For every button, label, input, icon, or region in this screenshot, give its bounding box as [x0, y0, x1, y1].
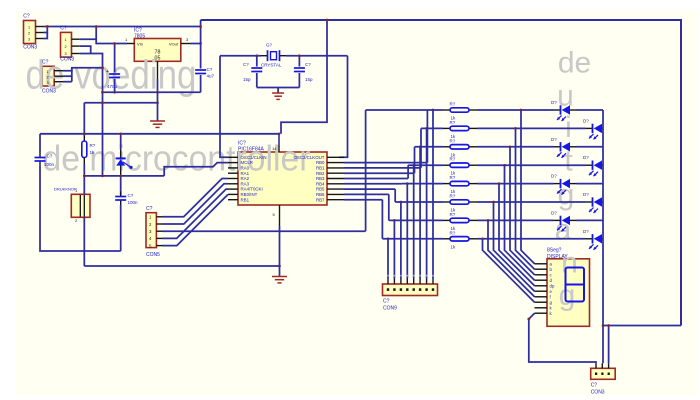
- display pin stubs 9,10: [535, 308, 548, 313]
- wire column to CON9 pin5: [406, 184, 408, 279]
- switch S1 pin ticks: [75, 188, 78, 223]
- wire crystal cap right drop: [298, 56, 300, 67]
- svg-text:C?: C?: [42, 59, 49, 65]
- svg-text:OSC1/CLKIN: OSC1/CLKIN: [241, 155, 267, 160]
- svg-text:C?: C?: [591, 383, 598, 389]
- junction VDD top bus: [326, 19, 329, 22]
- LED D6 leads: [586, 201, 604, 203]
- svg-text:4u7: 4u7: [207, 74, 215, 79]
- svg-text:C?: C?: [243, 62, 249, 67]
- svg-text:R?: R?: [450, 120, 456, 125]
- junction gnd rail B x157: [156, 101, 159, 104]
- wire column to CON9 pin7: [393, 220, 395, 278]
- wire J4 pin5 to MCU: [163, 194, 229, 245]
- wire pin RB5 riser: [394, 189, 396, 202]
- capacitor C4 stubs: [120, 192, 122, 206]
- junction 470u top: [113, 42, 116, 45]
- wire MCU pin RB4 out: [344, 183, 402, 185]
- svg-text:MCLR: MCLR: [241, 160, 253, 165]
- junction VDD node: [278, 132, 281, 135]
- wire J4 pin1 to MCU: [163, 179, 229, 217]
- connector J3 pin stubs: [54, 71, 63, 82]
- svg-text:8Seg?: 8Seg?: [547, 248, 562, 254]
- svg-text:1: 1: [47, 70, 49, 74]
- MCU VSS pin stub: [279, 205, 281, 226]
- wire column to CON9 pin4: [413, 165, 415, 278]
- ground symbol MCU: [272, 277, 287, 283]
- svg-text:05: 05: [155, 56, 161, 62]
- wire +5V distribution bus: [40, 133, 279, 135]
- junction display tap row1: [520, 109, 523, 112]
- wire resistor R8 to LED: [477, 238, 586, 240]
- junction gnd rail B x102: [101, 101, 104, 104]
- wire regulator output to +5V bus: [191, 43, 201, 45]
- resistor R8 leads: [443, 238, 477, 240]
- wire resistor R2 to LED: [477, 127, 586, 129]
- wire OSC2 to MCU: [339, 56, 348, 158]
- wire MCU VDD pin: [278, 134, 280, 145]
- display pin7 stub: [535, 296, 548, 298]
- svg-text:3: 3: [47, 81, 49, 85]
- wire MCU VSS to ground: [279, 226, 281, 277]
- svg-text:G?: G?: [266, 43, 273, 48]
- wire left loop bottom: [40, 166, 121, 251]
- wire pin RB6 riser: [388, 194, 390, 220]
- svg-text:n: n: [561, 247, 578, 280]
- wire display common out: [529, 313, 596, 363]
- svg-text:DISPLAY: DISPLAY: [547, 254, 568, 260]
- MCU right pin names: [294, 155, 326, 202]
- junction MCLR at gnd drop: [101, 175, 104, 178]
- wire display line 1: [521, 110, 535, 264]
- svg-text:2: 2: [47, 76, 49, 80]
- junction display tap row8: [481, 237, 484, 240]
- wire MCU pin RB5 out: [344, 188, 395, 190]
- junction display tap row6: [492, 201, 495, 204]
- resistor R2 body: [450, 126, 469, 130]
- wire column to CON9 pin2: [426, 128, 428, 278]
- connector J3 pin numbers: [47, 70, 49, 85]
- capacitor C4 100n plates: [115, 197, 126, 201]
- svg-text:R?: R?: [450, 157, 456, 162]
- junction row6 tap: [400, 201, 403, 204]
- display pin names: [550, 261, 555, 316]
- resistor R9 10k (vertical): [82, 141, 87, 158]
- junction row5 tap: [406, 182, 409, 185]
- LED D8 symbol: [589, 234, 602, 250]
- junction crystal right: [298, 54, 301, 57]
- wire MCU pin RB0 out: [344, 162, 427, 164]
- wire OSC1 to MCU: [220, 56, 228, 158]
- ground symbol crystal: [272, 93, 284, 99]
- svg-text:D?: D?: [583, 155, 589, 160]
- connector J1 pin stubs: [36, 27, 44, 39]
- connector J3 body: [42, 66, 54, 86]
- svg-text:VIn: VIn: [137, 41, 143, 46]
- svg-text:D?: D?: [583, 118, 589, 123]
- ground symbol regulator: [150, 121, 165, 127]
- wire resistor R3 to LED: [477, 146, 554, 148]
- LED D5 symbol: [557, 179, 570, 195]
- svg-text:D?: D?: [551, 174, 557, 179]
- wire left loop cap branch top: [39, 134, 41, 153]
- svg-text:RA4/T0CKI: RA4/T0CKI: [241, 187, 263, 192]
- svg-text:VOut: VOut: [169, 41, 179, 46]
- wire bottom gnd rail: [84, 265, 279, 267]
- wire VDD feed from top bus: [281, 20, 327, 134]
- switch S1 contacts: [80, 195, 84, 217]
- CON9 pin2 stub: [426, 279, 428, 285]
- svg-text:D?: D?: [583, 192, 589, 197]
- junction J1 tie: [46, 25, 49, 28]
- svg-text:C?: C?: [207, 67, 213, 72]
- svg-text:CON5: CON5: [146, 252, 160, 258]
- display DIS1 body: [547, 259, 590, 327]
- svg-text:3: 3: [28, 38, 30, 42]
- svg-text:C?: C?: [383, 299, 390, 305]
- wire ground rail A: [103, 91, 201, 93]
- capacitor C6 15p plates: [294, 68, 305, 72]
- wire pin RB0 riser: [426, 110, 428, 163]
- svg-text:CRYSTAL: CRYSTAL: [261, 63, 282, 68]
- regulator U2 pin names: [137, 41, 179, 61]
- wire switch to gnd rail: [83, 217, 85, 266]
- wire J6 pin3 drop: [608, 326, 610, 364]
- svg-text:D?: D?: [551, 100, 557, 105]
- MCU left pin stubs: [228, 157, 238, 199]
- connector J4 pin stubs: [156, 217, 162, 246]
- svg-text:RA2: RA2: [241, 176, 250, 181]
- wire below C2: [200, 75, 202, 92]
- resistor R3 leads: [443, 146, 477, 148]
- MCU left pin names: [241, 155, 267, 202]
- resistor R5 leads: [443, 183, 477, 185]
- svg-text:RB0/INT: RB0/INT: [241, 192, 258, 197]
- LED D3 symbol: [557, 142, 570, 158]
- resistor R5 body: [450, 181, 469, 185]
- resistor R1 body: [450, 108, 469, 112]
- junction MCLR at zener: [119, 175, 122, 178]
- wire OSC2 top: [286, 55, 348, 57]
- diode D9 top stub: [120, 150, 122, 158]
- wire J3 pin2 tie: [63, 75, 72, 77]
- wire J2 pin1 to +9V: [80, 38, 97, 40]
- svg-text:RA3: RA3: [241, 181, 250, 186]
- wire J4 pin4 to MCU: [163, 189, 229, 238]
- wire regulator gnd down: [157, 79, 159, 121]
- svg-text:1: 1: [65, 38, 67, 42]
- wire display line 5: [499, 184, 535, 286]
- wire display line 6: [494, 202, 535, 291]
- svg-text:R?: R?: [450, 175, 456, 180]
- connector J1 body: [24, 21, 36, 44]
- svg-text:OSC2/CLKOUT: OSC2/CLKOUT: [294, 155, 325, 160]
- wire LED D1 to common: [577, 109, 604, 111]
- wire row3 to resistor: [415, 146, 444, 148]
- wire below C6: [298, 73, 300, 88]
- CON9 pin3 stub: [419, 279, 421, 285]
- svg-text:RA1: RA1: [241, 171, 250, 176]
- CON9 pin4 stub: [413, 279, 415, 285]
- svg-text:14: 14: [272, 146, 277, 151]
- MCU right pin stubs: [327, 157, 344, 199]
- junction row4 tap: [412, 164, 415, 167]
- svg-text:C?: C?: [305, 62, 311, 67]
- junction gnd rail A x102: [101, 91, 104, 94]
- wire column to CON9 pin6: [400, 202, 402, 279]
- junction gnd rail A x157: [156, 91, 159, 94]
- svg-text:RB1: RB1: [316, 166, 325, 171]
- wire +5V bus drop: [200, 20, 202, 69]
- junction display common corner: [527, 318, 530, 321]
- svg-text:3: 3: [65, 52, 67, 56]
- connector J5 pin marks: [387, 288, 434, 291]
- wire pin RB4 riser: [401, 183, 403, 185]
- LED D4 symbol: [589, 161, 602, 177]
- svg-text:2: 2: [65, 45, 67, 49]
- junction display tap row5: [498, 182, 501, 185]
- resistor R2 leads: [443, 127, 477, 129]
- wire J3 pin1 jog: [63, 68, 103, 71]
- wire crystal gnd drop: [277, 88, 279, 94]
- wire row2 to resistor: [421, 127, 443, 129]
- junction +9V rail tap: [95, 25, 98, 28]
- display pin6 stub: [535, 290, 548, 292]
- junction C1 bottom: [113, 91, 116, 94]
- MCU power pin numbers: [272, 146, 277, 217]
- CON9 pin7 stub: [393, 279, 395, 285]
- svg-text:D?: D?: [583, 229, 589, 234]
- junction J6 pin3 tap: [607, 324, 610, 327]
- regulator U2 output pin stub: [181, 43, 191, 45]
- wire row7 to resistor: [389, 219, 443, 221]
- svg-text:100n: 100n: [128, 200, 139, 205]
- capacitor C5 15p plates: [251, 68, 262, 72]
- LED D7 symbol: [557, 216, 570, 232]
- svg-text:R?: R?: [450, 194, 456, 199]
- svg-text:i: i: [565, 111, 572, 144]
- wire J1 pin2-pin3 tie: [44, 27, 48, 33]
- wire resistor R7 to LED: [477, 219, 554, 221]
- microcontroller IC1 body: [238, 152, 327, 205]
- connector J5 faint pin numbers: [387, 275, 434, 277]
- capacitor C1 470u plates: [109, 74, 120, 78]
- wire J1 pin3 tie: [44, 33, 48, 39]
- switch S1 body: [71, 194, 90, 217]
- diode D9 bottom stub: [120, 166, 122, 176]
- wire display line 8: [483, 239, 535, 302]
- junction reset bus: [83, 132, 86, 135]
- svg-text:C?: C?: [47, 154, 53, 159]
- CON9 pin5 stub: [406, 279, 408, 285]
- svg-text:R?: R?: [450, 138, 456, 143]
- LED D3 leads: [554, 146, 577, 148]
- display pin8 stub: [535, 301, 548, 303]
- wire resistor R4 to LED: [477, 164, 586, 166]
- resistor R4 body: [450, 163, 469, 167]
- wire below C1: [114, 79, 116, 92]
- LED D1 leads: [554, 109, 577, 111]
- wire R9 to switch: [83, 164, 85, 194]
- wire OSC1 top: [220, 55, 261, 57]
- wire +5V top bus: [201, 20, 681, 326]
- svg-text:R?: R?: [450, 102, 456, 107]
- crystal X1 lead stubs: [261, 55, 286, 57]
- capacitor C2 4u7 plates: [195, 70, 206, 74]
- regulator U2 input pin stub: [127, 43, 134, 45]
- wire J2 pin2 jog: [80, 46, 91, 53]
- connector J1 pin numbers: [28, 26, 30, 42]
- resistor R4 leads: [443, 164, 477, 166]
- svg-text:C?: C?: [128, 193, 134, 198]
- connector J6 pin stubs: [596, 363, 609, 368]
- MCU VDD pin stub: [278, 145, 280, 152]
- regulator U2 pin number ticks: [125, 37, 189, 42]
- svg-text:R?: R?: [450, 212, 456, 217]
- junction bottom gnd rail: [278, 265, 281, 268]
- LED D1 symbol: [557, 105, 570, 121]
- regulator U2 7805 body: [134, 39, 181, 62]
- resistor R9 top stub: [83, 136, 85, 141]
- svg-text:DRUKKNOP: DRUKKNOP: [54, 187, 77, 192]
- CON9 pin6 stub: [400, 279, 402, 285]
- capacitor C3 100n plates: [35, 158, 46, 162]
- junction row8 tap: [387, 237, 390, 240]
- svg-text:RB3: RB3: [316, 176, 325, 181]
- crystal X1: [268, 50, 280, 61]
- svg-text:7805: 7805: [134, 34, 145, 40]
- svg-text:RA0: RA0: [241, 166, 250, 171]
- svg-text:1k: 1k: [90, 150, 96, 155]
- junction regulator output node: [199, 42, 202, 45]
- wire J4 pin2 to MCU: [163, 184, 229, 224]
- resistor R7 body: [450, 218, 469, 222]
- wire MCU pin RB6 out: [344, 193, 389, 195]
- LED D5 leads: [554, 183, 577, 185]
- wire J3 pins tie: [71, 68, 73, 82]
- watermark "de uitgang" (vertical): [555, 47, 592, 313]
- CON9 pin1 stub: [432, 279, 434, 285]
- wire LED common bus: [602, 110, 604, 363]
- svg-text:D?: D?: [551, 210, 557, 215]
- junction display tap row2: [514, 127, 517, 130]
- display digit 8 glyph: [566, 268, 585, 302]
- wire row8 to resistor: [382, 238, 443, 240]
- svg-text:15p: 15p: [305, 77, 313, 82]
- wire display line 3: [510, 147, 535, 275]
- svg-text:2: 2: [28, 32, 30, 36]
- svg-text:CON3: CON3: [42, 89, 56, 95]
- CON9 pin8 stub: [387, 279, 389, 285]
- wire display line 2: [516, 128, 535, 269]
- svg-text:RB5: RB5: [316, 187, 325, 192]
- wire column to CON9 pin3: [419, 147, 421, 279]
- wire LED D3 to common: [577, 146, 604, 148]
- resistor R1 leads: [443, 109, 477, 111]
- junction display tap row3: [509, 145, 512, 148]
- svg-text:CON9: CON9: [383, 306, 397, 312]
- junction J3 gnd: [101, 66, 104, 69]
- svg-text:15p: 15p: [243, 77, 251, 82]
- resistor R7 leads: [443, 219, 477, 221]
- display pin3 stub: [535, 274, 548, 276]
- resistor R6 leads: [443, 201, 477, 203]
- svg-text:dp: dp: [550, 283, 555, 288]
- junction row2 tap: [425, 127, 428, 130]
- svg-text:CON3: CON3: [23, 45, 37, 51]
- wire +9V drop to regulator input: [96, 27, 127, 44]
- connector J4 pin numbers: [149, 215, 152, 249]
- wire below C5: [256, 73, 258, 88]
- LED D6 symbol: [589, 197, 602, 213]
- wire MCU pin RB1 out: [344, 167, 421, 169]
- svg-text:de: de: [558, 47, 591, 80]
- svg-text:CON3: CON3: [60, 57, 74, 63]
- wire MCLR chain top: [120, 134, 122, 150]
- svg-text:RB0: RB0: [316, 160, 325, 165]
- wire row4 to resistor: [408, 164, 443, 166]
- wire reset branch upper: [83, 103, 85, 136]
- wire pin RB2 riser: [414, 147, 416, 173]
- wire LED D7 to common: [577, 219, 604, 221]
- resistor R3 body: [450, 145, 469, 149]
- resistor R6 body: [450, 200, 469, 204]
- wire 470u cap branch: [114, 44, 116, 73]
- svg-text:RB7: RB7: [316, 197, 325, 202]
- LED D8 leads: [586, 238, 604, 240]
- wire column to CON9 pin8: [387, 239, 389, 279]
- resistor R8 body: [450, 237, 469, 241]
- wire J1 pin1 to +9V rail: [44, 26, 201, 28]
- diode D9: [116, 158, 133, 169]
- junction crystal left: [255, 54, 258, 57]
- svg-text:R?: R?: [90, 143, 96, 148]
- wire resistor R5 to LED: [477, 183, 554, 185]
- junction row7 tap: [393, 219, 396, 222]
- svg-text:C?: C?: [60, 26, 67, 32]
- connector J2 pin numbers: [65, 38, 67, 56]
- wire MCLR node: [84, 175, 164, 177]
- svg-text:R?: R?: [450, 230, 456, 235]
- svg-text:470u: 470u: [107, 84, 118, 89]
- svg-text:RB6: RB6: [316, 192, 325, 197]
- svg-text:RB2: RB2: [316, 171, 325, 176]
- LED D7 leads: [554, 219, 577, 221]
- wire display line 7: [488, 220, 535, 296]
- wire common link to right bus: [603, 325, 681, 327]
- capacitor C3 stubs: [39, 153, 41, 167]
- wire pin RB7 riser: [381, 200, 383, 239]
- connector J2 pin stubs: [72, 39, 80, 53]
- display pin4 stub: [535, 279, 548, 281]
- wire below C4: [120, 205, 122, 251]
- svg-text:RB4: RB4: [316, 181, 325, 186]
- connector J6 pin marks: [595, 373, 610, 376]
- svg-text:PIC16F84A: PIC16F84A: [238, 147, 265, 153]
- junction LED common at link: [602, 324, 605, 327]
- wire resistor R6 to LED: [477, 201, 586, 203]
- svg-text:C?: C?: [23, 14, 30, 20]
- wire MCLR to MCU pin: [164, 163, 228, 176]
- junction row3 tap: [419, 145, 422, 148]
- display pin1 stub: [535, 263, 548, 265]
- junction MCLR at reset: [83, 175, 86, 178]
- svg-text:1: 1: [28, 26, 30, 30]
- display pin5 stub: [535, 285, 548, 287]
- junction MCLR chain bus: [119, 132, 122, 135]
- wire long run up to row1: [365, 110, 367, 231]
- LED D2 symbol: [589, 124, 602, 140]
